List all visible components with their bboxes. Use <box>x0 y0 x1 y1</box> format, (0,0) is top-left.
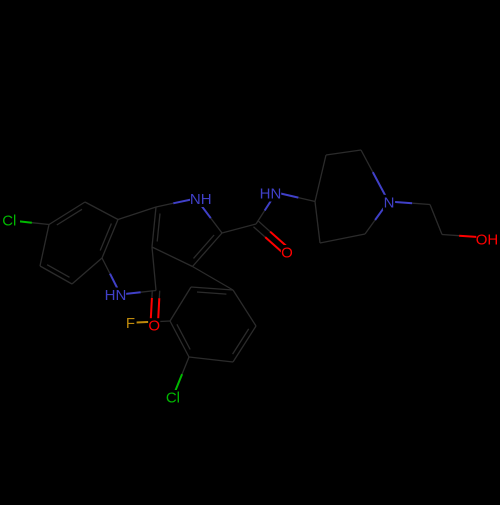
bond C5a-N5 <box>102 258 110 274</box>
svg-text:O: O <box>281 245 293 262</box>
bond Nam-C4p <box>276 193 298 198</box>
svg-text:N: N <box>384 194 395 211</box>
bond V2-Cl2 <box>182 357 189 374</box>
bond N1p-C7p <box>389 202 413 204</box>
C4=O4 double <box>151 290 153 298</box>
benzene ring left <box>49 202 85 225</box>
Cam=Oam double <box>254 227 266 237</box>
bond C2-Cam <box>222 224 256 233</box>
bond C8p-Ooh <box>442 235 459 236</box>
svg-text:F: F <box>126 315 135 332</box>
svg-text:HN: HN <box>260 186 282 203</box>
svg-text:Cl: Cl <box>2 213 16 230</box>
piperidine ring <box>315 202 320 244</box>
bond C7p-C8p <box>430 205 442 235</box>
bond N5-C4 <box>121 292 141 294</box>
svg-text:HN: HN <box>105 287 127 304</box>
bond C4-C3a <box>152 247 156 291</box>
bond Cam-Nam <box>256 211 265 225</box>
svg-text:O: O <box>148 318 160 335</box>
svg-text:NH: NH <box>190 191 212 208</box>
bond C3-V5 <box>193 267 234 291</box>
svg-text:OH: OH <box>476 232 499 249</box>
pyrrole ring <box>152 207 156 247</box>
bond V1-F <box>153 320 170 323</box>
bond Cl-C7 <box>9 220 32 222</box>
bond C9a-C9b <box>118 207 156 220</box>
svg-text:Cl: Cl <box>166 390 180 407</box>
aryl2 ring <box>233 290 256 326</box>
